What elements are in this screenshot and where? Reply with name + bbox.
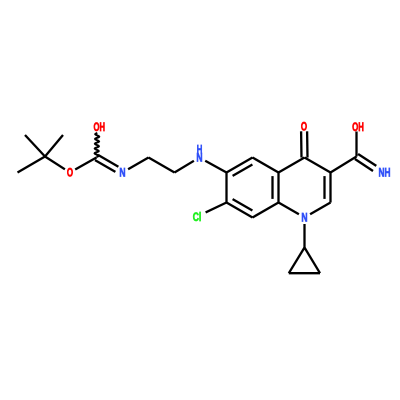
bond N1-C8a	[279, 203, 299, 215]
svg-text:N: N	[119, 167, 125, 179]
inner line C6=C5	[233, 165, 253, 176]
svg-text:O: O	[301, 121, 307, 133]
bond tBu methyl 2	[45, 135, 63, 157]
bond C3-C2	[329, 173, 331, 203]
bond C8-C7 aromatic	[227, 203, 253, 218]
bond CH2-NH	[175, 161, 194, 173]
bond C4a-C8a aromatic	[277, 173, 279, 203]
svg-text:O: O	[67, 167, 73, 179]
bond NH-C6	[205, 161, 226, 173]
svg-text:NH: NH	[379, 167, 391, 179]
bond N1-cyclopropyl	[303, 224, 305, 248]
bond C4-C3	[305, 158, 331, 173]
bond cyclopropyl base	[289, 272, 320, 274]
bond tBuC-O ester	[45, 157, 65, 170]
bond C3-Camide	[331, 157, 357, 173]
inner line C3=C2	[323, 176, 325, 199]
bond C7-C6	[225, 173, 227, 203]
svg-text:Cl: Cl	[193, 212, 202, 224]
double bond Ccarbamate=N	[95, 160, 115, 172]
bond tBu methyl 3	[18, 157, 46, 173]
bond C8a-C8	[253, 203, 279, 218]
bond Camide-OH	[355, 132, 357, 157]
bond CH2-CH2	[149, 158, 175, 173]
svg-text:N: N	[301, 212, 307, 224]
bond tBu methyl 1	[25, 135, 45, 157]
bond N-CH2	[128, 158, 148, 170]
double bond C4=O ketone	[306, 131, 309, 157]
svg-text:H: H	[197, 145, 203, 157]
double bond Camide=NH	[355, 159, 373, 171]
wavy bond Ccarbamate-OH	[95, 133, 100, 157]
bond O-Ccarbamate	[75, 158, 96, 170]
bond C6-C5 aromatic	[227, 158, 253, 173]
svg-text:OH: OH	[352, 122, 364, 134]
bond C2-N1	[310, 203, 330, 215]
svg-text:OH: OH	[94, 122, 106, 134]
bond cyclopropyl left	[289, 248, 305, 274]
inner line C8=C7	[233, 199, 253, 210]
bond cyclopropyl right	[305, 248, 321, 274]
bond C5-C4a	[253, 158, 279, 173]
inner line C4a=C8a	[271, 176, 273, 199]
bond C7-Cl	[206, 203, 227, 213]
bond C4a-C4	[279, 158, 305, 173]
